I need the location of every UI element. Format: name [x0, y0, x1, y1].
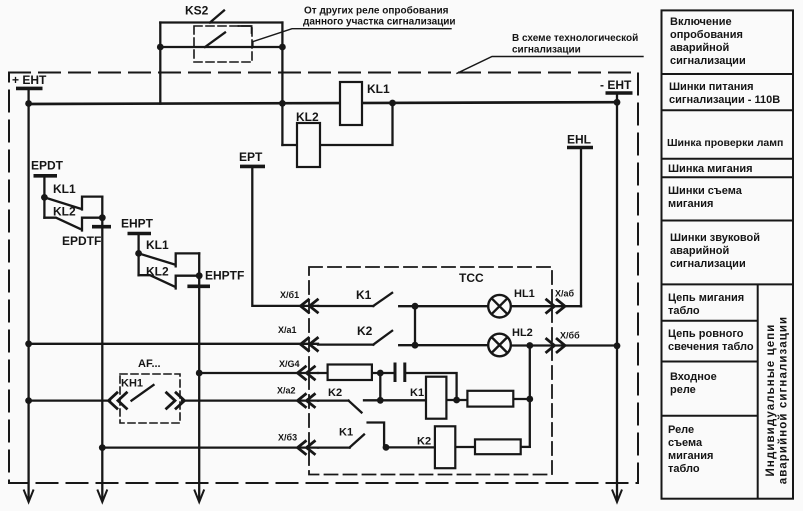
svg-text:Х/б3: Х/б3 [278, 433, 297, 443]
svg-text:K1: K1 [410, 387, 424, 399]
svg-text:Х/б1: Х/б1 [280, 290, 299, 300]
svg-text:EPDT: EPDT [31, 159, 64, 173]
svg-text:HL2: HL2 [512, 327, 533, 339]
svg-text:KS2: KS2 [185, 4, 209, 18]
svg-text:ТСС: ТСС [459, 271, 484, 285]
svg-text:EPDTF: EPDTF [62, 234, 101, 248]
svg-text:- ЕНТ: - ЕНТ [600, 78, 632, 92]
svg-text:Х/бб: Х/бб [560, 331, 580, 341]
svg-text:K1: K1 [356, 288, 372, 302]
svg-text:K1: K1 [339, 427, 353, 439]
svg-text:+ ЕНТ: + ЕНТ [12, 73, 47, 87]
svg-text:EHPTF: EHPTF [205, 269, 244, 283]
svg-text:KL1: KL1 [53, 182, 76, 196]
svg-text:Шинки питаниясигнализации - 11: Шинки питаниясигнализации - 110В [669, 81, 780, 106]
svg-text:Входноереле: Входноереле [670, 371, 717, 396]
svg-text:Цепь ровногосвечения табло: Цепь ровногосвечения табло [668, 328, 754, 353]
svg-text:EHPT: EHPT [121, 217, 154, 231]
svg-text:EHL: EHL [567, 133, 591, 147]
svg-text:Индивидуальные цепиаварийной с: Индивидуальные цепиаварийной сигнализаци… [765, 316, 790, 484]
svg-text:Цепь миганиятабло: Цепь миганиятабло [668, 292, 744, 317]
svg-text:KL2: KL2 [146, 265, 169, 279]
svg-text:Шинка проверки ламп: Шинка проверки ламп [667, 137, 783, 149]
svg-text:K2: K2 [417, 436, 431, 448]
svg-text:В схеме технологической: В схеме технологической [512, 33, 638, 44]
svg-text:Х/а2: Х/а2 [277, 386, 296, 396]
svg-text:KL1: KL1 [367, 82, 390, 96]
svg-text:EPT: EPT [239, 150, 263, 164]
svg-text:Релесъемамиганиятабло: Релесъемамиганиятабло [668, 424, 713, 475]
svg-text:Х/G4: Х/G4 [279, 359, 300, 369]
svg-text:K2: K2 [328, 387, 342, 399]
svg-text:Х/аб: Х/аб [555, 289, 575, 299]
svg-text:K2: K2 [357, 324, 373, 338]
svg-text:Включениеопробованияаварийнойс: Включениеопробованияаварийнойсигнализаци… [670, 16, 746, 67]
svg-text:HL1: HL1 [514, 288, 535, 300]
svg-text:KH1: KH1 [121, 378, 143, 390]
svg-text:Шинки съемамигания: Шинки съемамигания [668, 185, 743, 210]
svg-text:Шинка мигания: Шинка мигания [668, 163, 753, 175]
svg-text:AF...: AF... [138, 358, 161, 370]
svg-text:KL2: KL2 [296, 110, 319, 124]
svg-text:KL1: KL1 [146, 238, 169, 252]
svg-text:сигнализации: сигнализации [512, 45, 581, 56]
svg-text:Х/а1: Х/а1 [278, 325, 297, 335]
svg-text:Шинки звуковойаварийнойсигнали: Шинки звуковойаварийнойсигнализации [670, 232, 760, 270]
svg-text:От других реле опробования: От других реле опробования [304, 5, 449, 17]
svg-text:KL2: KL2 [53, 205, 76, 219]
svg-text:данного участка сигнализации: данного участка сигнализации [303, 17, 456, 28]
